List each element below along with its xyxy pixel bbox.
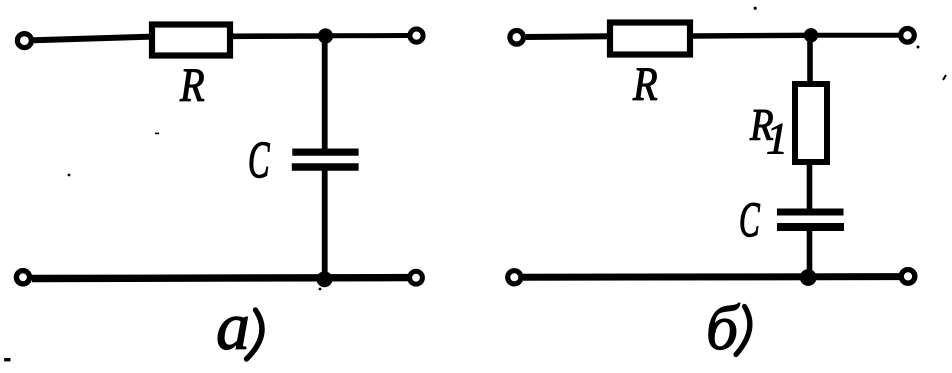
svg-text:1: 1 xyxy=(766,114,788,163)
svg-text:C: C xyxy=(739,192,761,247)
svg-text:C: C xyxy=(248,131,270,189)
svg-text:R: R xyxy=(179,59,205,112)
svg-text:R: R xyxy=(632,58,658,111)
svg-text:а: а xyxy=(216,288,250,364)
